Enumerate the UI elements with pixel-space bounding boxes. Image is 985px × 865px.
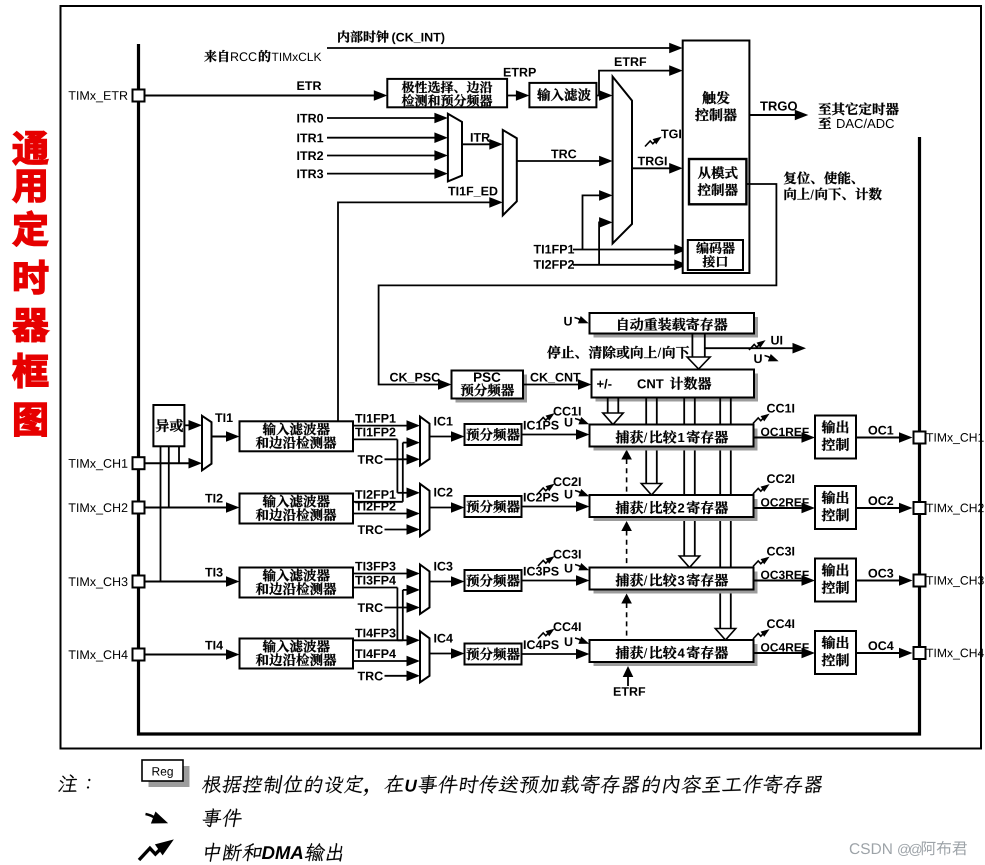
block input filter & edge detector ch3: [240, 568, 354, 598]
wire IC2: [434, 488, 452, 497]
wire ETRF into TRGI mux: [599, 95, 600, 97]
block capture/compare register 4: [594, 644, 758, 666]
legend Reg box: [149, 766, 190, 787]
pin TIMx_CH4 input: [69, 650, 128, 661]
mux ITR select: [448, 114, 462, 182]
wire TI1FP1: [355, 414, 395, 423]
wire ETR: [297, 81, 321, 90]
wire OC1: [868, 426, 893, 435]
pin TIMx_CH3 input: [69, 577, 128, 588]
block capture/compare register 2: [594, 499, 758, 521]
wire TRC ch4: [358, 672, 383, 681]
pin TIMx_CH1 input: [69, 459, 128, 470]
interrupt UI: [749, 338, 767, 350]
wire IC1PS: [524, 421, 559, 430]
node to other timers / DAC/ADC: [819, 103, 899, 116]
pin TIMx_ETR: [69, 91, 128, 102]
block output control ch3: [815, 559, 856, 602]
wires CNT to capture/compare pipes: [607, 398, 609, 414]
node reset/enable/count text: [784, 171, 855, 184]
pin TIMx_CH4 output: [914, 647, 926, 659]
interrupt CC2I right: [767, 474, 794, 483]
wire TRGO: [760, 101, 797, 110]
pin TIMx_CH1 output: [914, 432, 926, 444]
wire IC4PS: [524, 640, 559, 649]
wire TI2FP1: [355, 490, 395, 499]
mux IC1 select: [420, 417, 430, 466]
wire ETRF to trigger controller: [615, 57, 646, 66]
wire TRC ch2: [358, 525, 383, 534]
interrupt TGI: [661, 129, 681, 138]
wire IC3: [434, 562, 452, 571]
wire update event: [705, 347, 794, 349]
wire OC3REF: [761, 571, 809, 580]
block polarity/edge-detector/prescaler: [387, 79, 507, 107]
wire OC4: [868, 641, 893, 650]
red vertical title 通用定时器框图: [13, 131, 48, 165]
wire main pin bus (left/bottom/right): [139, 44, 920, 734]
block output control ch4: [815, 631, 856, 674]
mux IC3 select: [420, 565, 430, 615]
interrupt CC3I left: [553, 550, 580, 559]
block prescaler ch4: [465, 644, 522, 665]
wire ETRF into CC4: [627, 677, 629, 687]
wires capture transfer dashed arrows: [626, 459, 628, 493]
wire TRC ch1: [358, 455, 383, 464]
wire CK_INT: [327, 47, 670, 49]
block PSC prescaler register: [456, 375, 528, 403]
event U into auto-reload: [564, 317, 571, 326]
node stop/clear/updown text: [547, 346, 657, 359]
block prescaler ch1: [465, 424, 522, 445]
node CK_INT label: [338, 30, 388, 42]
wire IC1: [434, 417, 452, 426]
event U update: [754, 354, 761, 363]
wire OC1REF: [761, 428, 809, 437]
wire auto-reload to CNT (preload pipe): [691, 334, 693, 357]
block capture/compare register 3: [594, 572, 758, 594]
mux TI1 select: [202, 416, 212, 471]
block prescaler ch2: [465, 496, 522, 517]
block input filter & edge detector ch2: [240, 494, 354, 524]
wire IC2PS: [524, 493, 559, 502]
block input filter & edge detector ch1: [240, 421, 354, 451]
wires XOR inputs from CH1-CH3: [178, 446, 180, 463]
wire OC3: [868, 569, 893, 578]
wire OC2: [868, 496, 893, 505]
legend event text: [201, 808, 243, 827]
interrupt CC4I left: [553, 622, 580, 631]
mux IC2 select: [420, 484, 430, 536]
legend event arrow icon: [146, 812, 171, 830]
wire IC3PS: [524, 567, 559, 576]
interrupt CC2I left: [553, 477, 580, 486]
wire TI1FP1 to encoder/TRGI mux: [534, 245, 574, 254]
block auto-reload register: [594, 317, 759, 338]
block encoder interface: [688, 240, 743, 270]
block output control ch1: [815, 416, 856, 459]
pin TIMx_CH2 input: [69, 503, 128, 514]
wire OC4REF: [761, 643, 809, 652]
wire TI3FP3: [355, 562, 395, 571]
block CNT counter register: [596, 374, 759, 402]
wire CK_CNT: [530, 373, 580, 383]
pin TIMx_CH3 output: [914, 575, 926, 587]
event U capture ch1: [565, 418, 572, 427]
watermark: [850, 843, 892, 854]
wire slave mode ctrl to CK_PSC: [379, 184, 777, 385]
block input filter ETR: [529, 83, 596, 107]
legend preload text: [201, 775, 406, 796]
wire OC2REF: [761, 498, 809, 507]
interrupt CC4I right: [767, 619, 794, 628]
block prescaler ch3: [465, 570, 522, 591]
legend interrupt text: [203, 843, 263, 862]
note label: [58, 774, 92, 791]
event U capture ch3: [565, 564, 572, 573]
wire TI2FP2 to encoder/TRGI mux: [534, 260, 574, 269]
wire ITR: [471, 133, 490, 142]
block capture/compare register 1: [594, 429, 758, 451]
wire TI1: [215, 413, 233, 422]
node TIMxCLK from RCC label: [204, 50, 228, 62]
block slave mode controller: [689, 159, 746, 204]
wire TI2FP2: [355, 502, 395, 511]
wire TRGI: [638, 157, 667, 166]
pin TIMx_CH2 output: [914, 502, 926, 514]
block XOR: [153, 405, 184, 446]
block output control ch2: [815, 486, 856, 529]
mux TRGI select: [613, 77, 632, 244]
event U capture ch4: [565, 637, 572, 646]
interrupt CC3I right: [767, 547, 794, 556]
wire CH1 to TI1 mux: [145, 462, 191, 464]
wires ITR0-ITR3: [297, 114, 323, 123]
wire TI1F_ED: [448, 187, 497, 197]
wire TI2: [205, 494, 222, 503]
mux IC4 select: [420, 631, 430, 682]
mux TRC select: [503, 130, 517, 215]
wire TI3: [205, 568, 222, 577]
wire TI4: [205, 641, 223, 650]
interrupt CC1I right: [767, 404, 794, 413]
wire TRC to TRGI mux: [551, 149, 576, 158]
wire TI3FP4: [355, 576, 396, 585]
wire TI4FP4: [355, 649, 396, 658]
wire IC4: [434, 634, 453, 643]
wire XOR output: [184, 424, 190, 426]
wire TRC ch3: [358, 603, 383, 612]
legend interrupt/DMA icon: [139, 834, 178, 860]
block trigger controller U1: [683, 41, 750, 274]
block input filter & edge detector ch4: [240, 639, 354, 669]
wire TI4FP3: [355, 629, 395, 638]
event U capture ch2: [565, 490, 572, 499]
wire ETRP: [504, 68, 536, 77]
interrupt CC1I left: [553, 407, 580, 416]
wire TI1FP2: [355, 428, 395, 437]
